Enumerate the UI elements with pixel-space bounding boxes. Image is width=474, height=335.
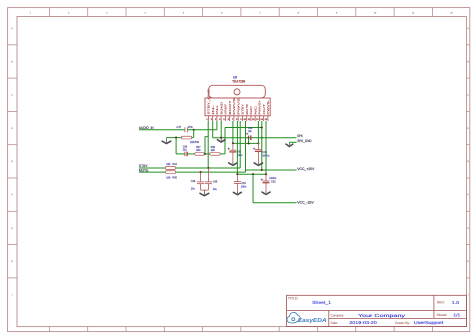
svg-text:STBY: STBY: [241, 104, 244, 115]
wire MUTE to R45: [139, 171, 165, 173]
capacitor C61 100n: [234, 174, 241, 191]
svg-text:TITLE:: TITLE:: [288, 297, 299, 301]
node C60 top: [265, 173, 267, 175]
svg-text:C45: C45: [213, 180, 218, 183]
wire feedback/output top rail: [225, 127, 262, 129]
svg-text:8: 8: [298, 12, 299, 15]
node IN- junction (R47/R48): [204, 153, 206, 155]
EasyEDA logo: [287, 312, 327, 323]
wire drop to VCC_-25V rail: [253, 174, 297, 203]
svg-text:1000u: 1000u: [269, 176, 276, 179]
ground (input): [162, 138, 171, 144]
svg-text:SGND: SGND: [220, 102, 223, 115]
wire C44 right to output column: [251, 137, 262, 139]
svg-text:10u: 10u: [213, 187, 217, 190]
wire R46 left lead to ground: [167, 137, 182, 139]
wire pin2 riser to signal ground rail: [212, 121, 214, 138]
wire C44 left drop to decoupling rail: [248, 138, 250, 144]
svg-text:12: 12: [252, 118, 255, 121]
wire pin1 column down to STBY row: [207, 121, 209, 168]
svg-text:10u: 10u: [191, 187, 195, 190]
svg-text:A: A: [11, 27, 13, 30]
svg-text:15: 15: [265, 118, 268, 121]
svg-text:A: A: [467, 27, 469, 30]
svg-text:1.0: 1.0: [452, 300, 460, 305]
wire decoupling rail: [233, 142, 259, 144]
plus mark C44: [246, 133, 248, 135]
svg-text:1/1: 1/1: [453, 313, 460, 318]
svg-text:C46: C46: [191, 180, 196, 183]
svg-text:STBY: STBY: [139, 164, 148, 168]
svg-text:VREF: VREF: [224, 104, 227, 115]
capacitor C43 1000u: [255, 143, 262, 162]
wire pin4 riser: [220, 121, 222, 138]
svg-text:Sheet_1: Sheet_1: [312, 300, 331, 305]
plus mark C43: [253, 148, 255, 150]
REV label and value: [437, 300, 459, 305]
wire to C48: [176, 153, 185, 155]
wire R44 to pin9 column: [176, 167, 241, 169]
svg-text:5: 5: [183, 12, 184, 15]
sheet frame: top ruler ticks and column numbers: [30, 8, 453, 17]
capacitor C46 10u: [197, 172, 204, 190]
svg-text:C: C: [11, 94, 13, 97]
svg-text:12: 12: [450, 12, 452, 15]
svg-text:U8: U8: [233, 75, 237, 79]
svg-text:SPK_GND: SPK_GND: [297, 139, 311, 143]
ground (C42): [229, 162, 237, 165]
Sheet row: [437, 313, 461, 318]
svg-text:3: 3: [215, 118, 216, 121]
plus mark C42: [228, 148, 230, 150]
svg-text:C44: C44: [248, 127, 252, 130]
svg-text:IN+: IN+: [216, 105, 219, 115]
svg-text:NC: NC: [254, 106, 257, 115]
Company row: [331, 313, 405, 318]
svg-text:22k: 22k: [190, 141, 194, 144]
svg-text:7: 7: [232, 118, 233, 121]
svg-text:C: C: [467, 94, 469, 97]
wire C48 to R47: [187, 153, 195, 155]
svg-text:22u: 22u: [248, 130, 252, 133]
svg-text:TDA7296: TDA7296: [232, 80, 245, 84]
svg-text:G: G: [467, 227, 469, 230]
title block outline: [287, 295, 467, 326]
svg-text:11: 11: [412, 12, 414, 15]
svg-text:6: 6: [221, 12, 222, 15]
svg-text:2019-03-20: 2019-03-20: [349, 321, 377, 325]
svg-text:AUDIO_IN: AUDIO_IN: [139, 126, 154, 130]
node C42 top: [232, 142, 234, 144]
svg-text:STBY_GND: STBY_GND: [207, 89, 210, 115]
wire pin9 riser (STBY): [239, 121, 241, 168]
node C44 left junction: [248, 137, 250, 139]
capacitor C47 470n (series input cap): [185, 127, 187, 132]
svg-text:EasyEDA: EasyEDA: [298, 317, 327, 323]
node IN+ junction: [193, 129, 195, 131]
svg-text:22k: 22k: [211, 149, 215, 152]
svg-text:1: 1: [206, 118, 207, 121]
resistor R47 680: [195, 153, 205, 156]
svg-text:B: B: [11, 60, 12, 63]
svg-text:REV:: REV:: [437, 301, 445, 305]
capacitor C42 100u: [229, 143, 236, 162]
svg-text:Drawn By:: Drawn By:: [395, 321, 410, 325]
svg-text:7: 7: [259, 12, 260, 15]
wire C47 to IN+ node: [187, 129, 217, 131]
svg-text:Your Company: Your Company: [358, 313, 405, 318]
node +25V rail / output column junction: [261, 169, 263, 171]
U8 pins 1-15: stubs, numbers, names: [206, 89, 269, 121]
svg-text:VCC_-25V: VCC_-25V: [297, 200, 314, 204]
svg-text:NC: NC: [250, 106, 253, 115]
svg-text:14: 14: [260, 118, 263, 121]
wire R45 to pin10 column: [176, 171, 246, 173]
svg-text:R46: R46: [195, 141, 199, 144]
wire AUDIO_IN to C47: [139, 129, 185, 131]
svg-text:H: H: [467, 260, 469, 263]
svg-text:Company:: Company:: [331, 314, 344, 318]
wire output column (pin14): [261, 121, 263, 170]
svg-text:C47: C47: [176, 126, 181, 129]
svg-text:C61: C61: [241, 182, 246, 185]
svg-text:F: F: [11, 193, 12, 196]
wire IN+ node down to R46: [193, 130, 195, 138]
wire IN- node jog up to pin 1: [205, 137, 209, 154]
svg-text:OUT: OUT: [262, 104, 265, 115]
node VCC_-25V drop junction: [252, 173, 254, 175]
svg-text:680: 680: [196, 149, 200, 152]
node feedback rail junction: [261, 126, 263, 128]
node output/SPK junction: [261, 137, 263, 139]
wire R46 right lead: [192, 137, 194, 139]
op-amp U8 body: [205, 98, 270, 116]
svg-text:I: I: [468, 293, 469, 296]
svg-text:PWVS: PWVS: [237, 98, 240, 115]
svg-text:2: 2: [211, 118, 212, 121]
svg-text:R45: R45: [172, 176, 176, 179]
node C61 top: [236, 173, 238, 175]
resistor R45 10k: [165, 171, 175, 174]
svg-text:BOOT: BOOT: [228, 101, 231, 115]
node pin4 ground junction: [220, 137, 222, 139]
ground (C60): [262, 191, 270, 195]
svg-text:MUTE: MUTE: [245, 104, 248, 115]
svg-text:Sheet:: Sheet:: [437, 313, 448, 317]
wire pin7 riser: [232, 121, 234, 143]
wire R48 right lead rising to feedback rail: [220, 128, 225, 154]
svg-text:5: 5: [223, 118, 224, 121]
svg-text:E: E: [11, 160, 12, 163]
ground (C61): [233, 191, 241, 194]
svg-text:VCC_+25V: VCC_+25V: [297, 167, 314, 171]
svg-text:R44: R44: [172, 163, 176, 166]
svg-text:F: F: [468, 193, 469, 196]
svg-text:D: D: [11, 127, 13, 130]
svg-text:I: I: [12, 293, 13, 296]
svg-text:2: 2: [68, 12, 69, 15]
wire junction down to C48 row: [175, 138, 177, 154]
svg-text:9: 9: [240, 118, 241, 121]
svg-text:6: 6: [228, 118, 229, 121]
wire pin13 riser: [257, 121, 259, 143]
svg-text:13: 13: [256, 118, 259, 121]
capacitor C45 10u: [205, 168, 212, 190]
svg-text:E: E: [467, 160, 468, 163]
svg-text:3: 3: [106, 12, 107, 15]
svg-text:C60: C60: [271, 180, 276, 183]
wire pin3 riser: [216, 121, 218, 130]
node R46/C48 junction: [175, 137, 177, 139]
svg-text:9: 9: [336, 12, 337, 15]
svg-text:R47: R47: [196, 146, 200, 149]
resistor R44 22k: [165, 167, 175, 170]
svg-text:C48: C48: [183, 145, 187, 148]
capacitor C60 1000u: [263, 174, 270, 191]
capacitor C44 22u (bootstrap): [249, 135, 252, 140]
resistor R46 22k: [181, 136, 191, 139]
svg-text:D: D: [467, 127, 469, 130]
wire STBY to R44: [139, 167, 165, 169]
wire pin15 riser: [265, 121, 267, 174]
svg-text:470n: 470n: [188, 126, 193, 129]
ground (signal, under pin 4): [217, 138, 225, 142]
capacitor C48 22u: [185, 152, 188, 157]
ground (C43): [254, 162, 262, 165]
svg-text:IN-: IN-: [211, 105, 214, 115]
svg-text:10: 10: [374, 12, 376, 15]
wire pin10 riser (MUTE): [245, 121, 247, 172]
svg-text:11: 11: [248, 118, 250, 121]
ground (C45/C46): [200, 190, 209, 196]
Date row: [331, 320, 444, 325]
svg-text:10k: 10k: [166, 176, 170, 179]
node C44 drop on rail: [248, 142, 250, 144]
wire -VS rail: [237, 173, 266, 175]
wire R47 to IN- node: [204, 153, 210, 155]
svg-text:Date:: Date:: [331, 321, 338, 325]
node C46 top junction: [200, 171, 202, 173]
ground SPK_GND arrow: [286, 142, 293, 146]
node C45 top junction: [207, 167, 209, 169]
svg-text:4: 4: [145, 12, 146, 15]
resistor R48 22k (feedback): [210, 153, 220, 156]
svg-text:R48: R48: [211, 146, 215, 149]
plus mark C60: [261, 179, 263, 181]
wire SPK stub: [262, 137, 297, 139]
svg-text:H: H: [11, 260, 13, 263]
svg-text:22k: 22k: [166, 163, 170, 166]
svg-text:UserSupport: UserSupport: [414, 320, 444, 325]
sheet frame: bottom ruler ticks: [49, 327, 432, 332]
svg-text:4: 4: [219, 118, 220, 121]
svg-text:1: 1: [30, 12, 31, 15]
wire SPK_GND stub: [289, 141, 296, 143]
wire C45/C46 ground join: [201, 189, 209, 191]
svg-text:8: 8: [236, 118, 237, 121]
svg-text:PWVS-: PWVS-: [267, 100, 270, 115]
sheet frame: right ruler ticks and row letters: [467, 27, 470, 296]
title block inner lines: [287, 295, 467, 326]
svg-text:G: G: [11, 227, 13, 230]
wire signal ground rail: [213, 137, 249, 139]
svg-text:22u: 22u: [183, 148, 187, 151]
wire VCC_+25V rail: [246, 169, 297, 171]
svg-text:SPK: SPK: [297, 134, 303, 138]
svg-text:100n: 100n: [241, 185, 247, 188]
op-amp U8 TDA7296 multiwatt package tab: [209, 85, 266, 98]
svg-text:PWVS+: PWVS+: [258, 100, 261, 115]
svg-text:10: 10: [243, 118, 246, 121]
svg-text:PWVS: PWVS: [233, 98, 236, 115]
sheet frame: left ruler ticks and row letters: [8, 27, 17, 296]
svg-text:B: B: [467, 60, 468, 63]
wire pin8 riser (C61 column): [236, 121, 238, 174]
node C43 top: [257, 142, 259, 144]
